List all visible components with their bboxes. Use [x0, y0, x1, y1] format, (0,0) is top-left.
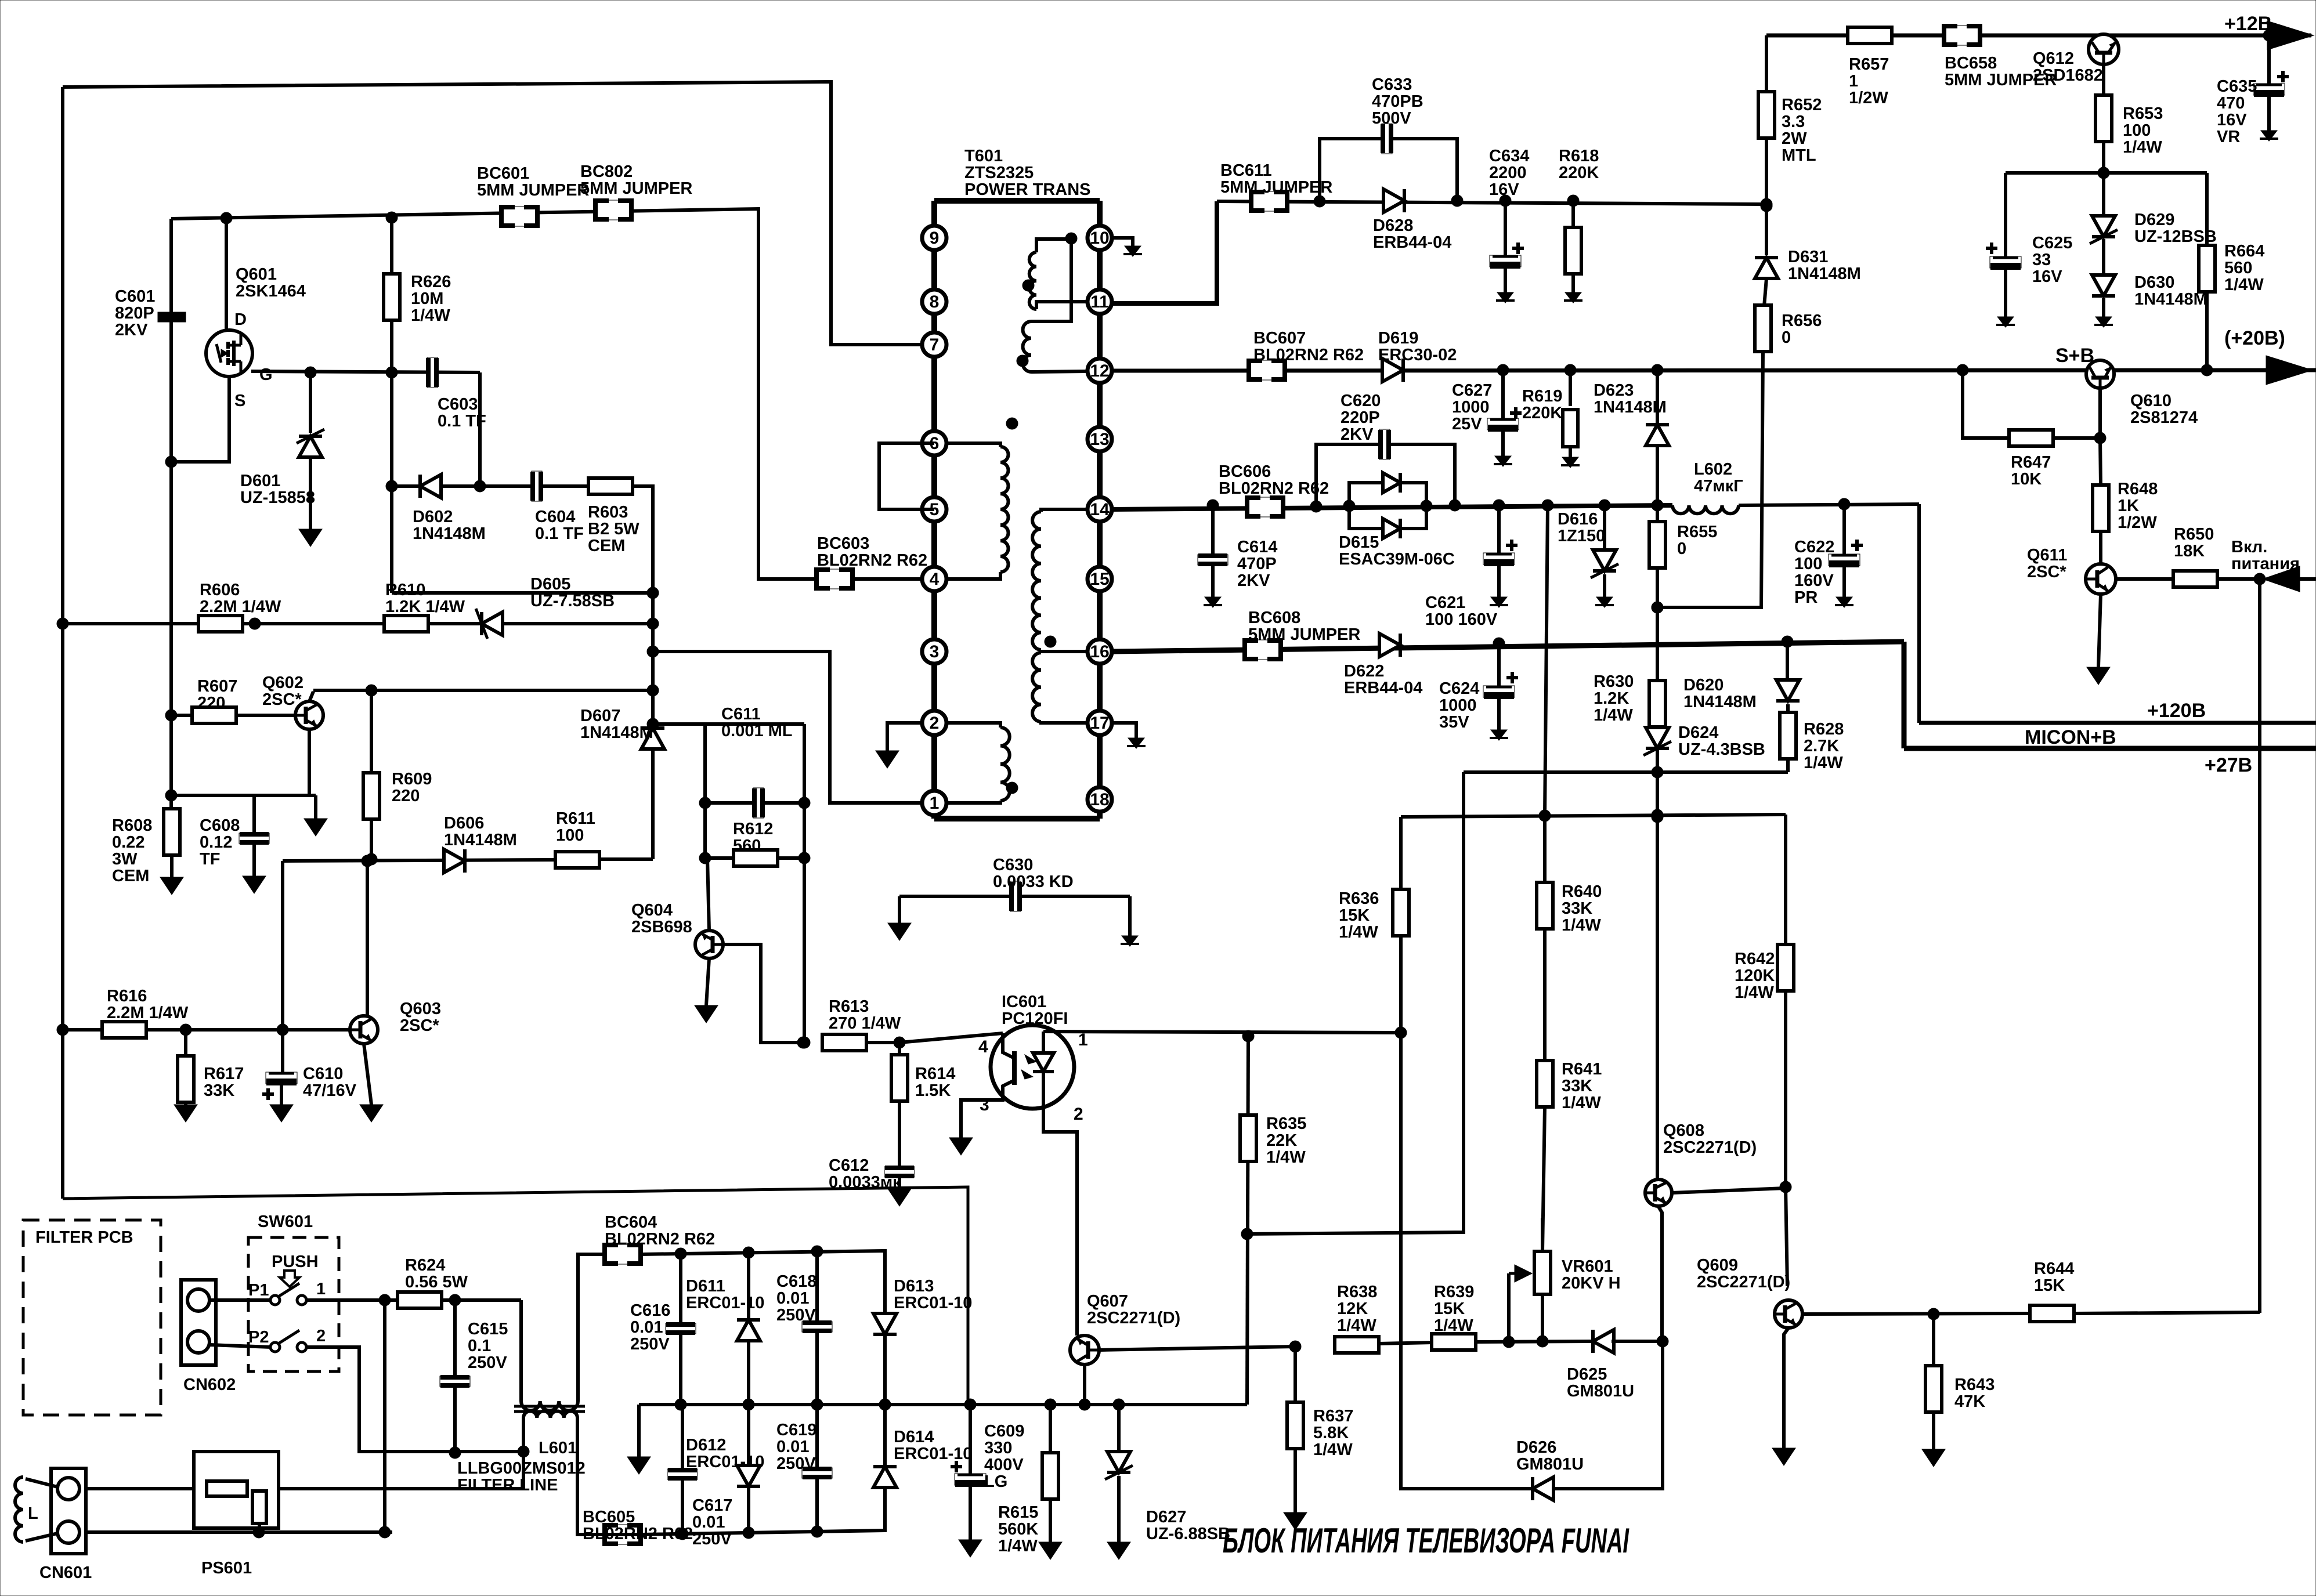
svg-text:R610: R610 — [385, 581, 425, 599]
svg-text:ERC01-10: ERC01-10 — [686, 1453, 764, 1471]
svg-text:0.0033 KD: 0.0033 KD — [993, 873, 1074, 891]
svg-text:0.12: 0.12 — [200, 833, 232, 852]
svg-text:250V: 250V — [776, 1454, 816, 1473]
svg-text:D620: D620 — [1683, 676, 1724, 694]
svg-text:+27B: +27B — [2205, 754, 2252, 776]
svg-text:D628: D628 — [1373, 216, 1413, 235]
svg-text:S+B: S+B — [2055, 345, 2094, 367]
svg-text:0.01: 0.01 — [630, 1318, 663, 1337]
svg-text:C614: C614 — [1237, 538, 1277, 556]
svg-text:Q608: Q608 — [1663, 1121, 1704, 1140]
svg-text:L: L — [28, 1504, 38, 1523]
svg-text:1N4148M: 1N4148M — [444, 831, 517, 849]
svg-text:R640: R640 — [1562, 882, 1602, 901]
svg-text:220: 220 — [197, 694, 225, 712]
svg-text:1.2K 1/4W: 1.2K 1/4W — [385, 598, 465, 616]
svg-text:R652: R652 — [1782, 96, 1822, 114]
svg-text:БЛОК ПИТАНИЯ ТЕЛЕВИЗОРА FUNAI: БЛОК ПИТАНИЯ ТЕЛЕВИЗОРА FUNAI — [1223, 1521, 1629, 1560]
svg-text:R639: R639 — [1434, 1283, 1474, 1301]
svg-text:D: D — [234, 310, 247, 329]
svg-text:18: 18 — [1090, 790, 1109, 809]
svg-text:25V: 25V — [1452, 415, 1482, 433]
svg-text:47K: 47K — [1954, 1392, 1985, 1411]
svg-text:C635: C635 — [2217, 77, 2257, 96]
svg-text:16: 16 — [1090, 642, 1109, 661]
svg-text:D605: D605 — [530, 575, 570, 593]
svg-text:16V: 16V — [2217, 111, 2247, 129]
svg-text:C625: C625 — [2032, 234, 2072, 252]
svg-text:0.0033мк: 0.0033мк — [829, 1173, 901, 1192]
svg-text:D624: D624 — [1678, 723, 1718, 742]
svg-text:D631: D631 — [1788, 248, 1828, 266]
svg-text:BC601: BC601 — [477, 164, 529, 183]
svg-text:16V: 16V — [2032, 267, 2062, 286]
svg-text:17: 17 — [1090, 714, 1109, 733]
svg-text:1: 1 — [1849, 72, 1858, 91]
svg-text:C610: C610 — [303, 1065, 343, 1083]
svg-text:ERC01-10: ERC01-10 — [894, 1445, 972, 1463]
svg-text:MICON+B: MICON+B — [2025, 726, 2116, 748]
svg-text:PS601: PS601 — [201, 1559, 252, 1577]
svg-text:C622: C622 — [1794, 538, 1834, 556]
svg-text:2SC2271(D): 2SC2271(D) — [1087, 1309, 1180, 1327]
svg-text:C608: C608 — [200, 816, 240, 835]
svg-text:2: 2 — [316, 1327, 326, 1345]
svg-text:D629: D629 — [2134, 211, 2174, 229]
svg-text:ERC01-10: ERC01-10 — [686, 1294, 764, 1312]
svg-text:D616: D616 — [1558, 510, 1598, 529]
svg-text:2SC2271(D): 2SC2271(D) — [1663, 1138, 1757, 1157]
svg-text:R630: R630 — [1594, 672, 1634, 691]
svg-text:Q612: Q612 — [2033, 49, 2074, 68]
svg-text:2KV: 2KV — [1237, 571, 1270, 590]
svg-text:D611: D611 — [686, 1277, 725, 1295]
svg-text:R619: R619 — [1522, 387, 1562, 406]
svg-text:D606: D606 — [444, 814, 484, 833]
svg-text:1000: 1000 — [1452, 398, 1490, 417]
svg-text:1/4W: 1/4W — [411, 306, 450, 325]
svg-text:8: 8 — [930, 292, 940, 312]
svg-text:1/4W: 1/4W — [1594, 706, 1633, 725]
svg-text:1.5K: 1.5K — [915, 1081, 951, 1100]
svg-text:1000: 1000 — [1439, 696, 1477, 715]
svg-text:D619: D619 — [1378, 329, 1418, 348]
svg-text:C612: C612 — [829, 1156, 869, 1175]
svg-text:TF: TF — [200, 850, 220, 868]
svg-text:2KV: 2KV — [1341, 425, 1374, 444]
svg-text:33: 33 — [2032, 251, 2051, 269]
svg-text:470: 470 — [2217, 94, 2245, 113]
svg-text:R648: R648 — [2118, 480, 2158, 498]
svg-text:C620: C620 — [1341, 392, 1381, 410]
svg-text:D625: D625 — [1567, 1365, 1607, 1384]
svg-text:330: 330 — [984, 1439, 1012, 1457]
svg-text:1N4148M: 1N4148M — [2134, 290, 2207, 309]
svg-text:13: 13 — [1090, 430, 1109, 449]
svg-text:0.1: 0.1 — [468, 1337, 491, 1355]
svg-text:1/4W: 1/4W — [1434, 1316, 1473, 1335]
svg-text:2.2M 1/4W: 2.2M 1/4W — [200, 598, 281, 616]
svg-text:D615: D615 — [1339, 533, 1379, 552]
svg-text:2: 2 — [1074, 1105, 1083, 1124]
svg-text:0: 0 — [1677, 540, 1686, 558]
svg-text:Q610: Q610 — [2130, 392, 2172, 410]
svg-text:1Z150: 1Z150 — [1558, 527, 1605, 545]
svg-text:D622: D622 — [1344, 662, 1384, 681]
svg-text:100: 100 — [2123, 121, 2151, 140]
svg-text:1N4148M: 1N4148M — [1788, 265, 1861, 283]
svg-text:0.001 ML: 0.001 ML — [721, 722, 793, 740]
svg-text:1N4148M: 1N4148M — [1683, 693, 1757, 711]
svg-text:R637: R637 — [1313, 1407, 1353, 1425]
svg-text:5MM JUMPER: 5MM JUMPER — [580, 179, 692, 198]
svg-text:R618: R618 — [1559, 147, 1599, 165]
svg-text:400V: 400V — [984, 1456, 1024, 1474]
svg-text:ERB44-04: ERB44-04 — [1344, 679, 1422, 697]
svg-text:FILTER LINE: FILTER LINE — [457, 1476, 558, 1494]
svg-text:ERC30-02: ERC30-02 — [1378, 346, 1457, 364]
svg-text:Q604: Q604 — [631, 901, 673, 920]
svg-text:R609: R609 — [392, 770, 432, 788]
svg-text:2SC*: 2SC* — [262, 690, 302, 709]
svg-text:220P: 220P — [1341, 408, 1380, 427]
svg-text:33K: 33K — [1562, 899, 1592, 918]
svg-text:15K: 15K — [2034, 1276, 2065, 1295]
svg-text:UZ-4.3BSB: UZ-4.3BSB — [1678, 740, 1765, 759]
svg-text:7: 7 — [930, 335, 940, 354]
svg-text:4: 4 — [930, 570, 940, 589]
svg-text:2SC*: 2SC* — [400, 1016, 439, 1035]
svg-text:IC601: IC601 — [1002, 993, 1046, 1011]
svg-text:R636: R636 — [1339, 889, 1379, 908]
svg-text:100: 100 — [556, 826, 584, 845]
svg-text:1/4W: 1/4W — [2123, 138, 2162, 157]
svg-text:C615: C615 — [468, 1320, 508, 1338]
svg-text:Q607: Q607 — [1087, 1292, 1128, 1311]
svg-text:G: G — [259, 365, 273, 384]
svg-text:2.2M 1/4W: 2.2M 1/4W — [107, 1004, 189, 1022]
svg-text:C618: C618 — [776, 1272, 816, 1291]
svg-text:R612: R612 — [733, 820, 773, 838]
svg-text:47/16V: 47/16V — [303, 1081, 357, 1100]
svg-text:CEM: CEM — [112, 867, 149, 885]
svg-text:+12B: +12B — [2224, 13, 2272, 35]
svg-text:ERC01-10: ERC01-10 — [894, 1294, 972, 1312]
svg-text:0.01: 0.01 — [776, 1289, 809, 1308]
svg-text:15K: 15K — [1434, 1300, 1465, 1318]
svg-text:15: 15 — [1090, 570, 1109, 589]
svg-text:C604: C604 — [535, 508, 575, 526]
svg-text:R657: R657 — [1849, 55, 1889, 74]
svg-text:D627: D627 — [1146, 1508, 1186, 1526]
svg-text:500V: 500V — [1372, 109, 1411, 128]
svg-text:BL02RN2 R62: BL02RN2 R62 — [1253, 346, 1364, 364]
svg-text:PUSH: PUSH — [272, 1253, 319, 1271]
svg-text:560: 560 — [733, 837, 761, 855]
svg-text:1: 1 — [930, 794, 940, 813]
svg-text:5MM JUMPER: 5MM JUMPER — [1220, 178, 1332, 197]
svg-text:R624: R624 — [405, 1256, 445, 1275]
svg-text:5.8K: 5.8K — [1313, 1424, 1349, 1442]
svg-text:15K: 15K — [1339, 906, 1370, 925]
svg-text:2SD1682: 2SD1682 — [2033, 66, 2103, 85]
svg-text:BL02RN2 R62: BL02RN2 R62 — [817, 551, 927, 570]
svg-text:Q603: Q603 — [400, 1000, 441, 1018]
svg-text:35V: 35V — [1439, 713, 1469, 732]
svg-text:R641: R641 — [1562, 1060, 1602, 1079]
svg-text:POWER TRANS: POWER TRANS — [964, 180, 1091, 199]
svg-text:2200: 2200 — [1489, 164, 1527, 182]
svg-text:R606: R606 — [200, 581, 240, 599]
svg-text:18K: 18K — [2174, 542, 2205, 560]
svg-text:2SC*: 2SC* — [2027, 563, 2066, 581]
svg-text:1/4W: 1/4W — [1266, 1148, 1306, 1167]
svg-text:VR601: VR601 — [1562, 1257, 1613, 1276]
svg-text:D607: D607 — [580, 707, 620, 725]
svg-text:22K: 22K — [1266, 1131, 1297, 1150]
svg-text:0.01: 0.01 — [692, 1513, 725, 1532]
svg-text:Q602: Q602 — [262, 674, 303, 692]
svg-text:R650: R650 — [2174, 525, 2214, 544]
svg-text:S: S — [234, 392, 245, 410]
svg-text:D613: D613 — [894, 1277, 934, 1295]
svg-text:10M: 10M — [411, 289, 443, 308]
svg-text:Q611: Q611 — [2027, 546, 2067, 564]
svg-text:PC120FI: PC120FI — [1002, 1009, 1068, 1028]
svg-text:ZTS2325: ZTS2325 — [964, 164, 1034, 182]
svg-text:MTL: MTL — [1782, 146, 1816, 165]
svg-text:250V: 250V — [630, 1335, 670, 1353]
svg-text:220K: 220K — [1522, 404, 1562, 422]
svg-text:FILTER PCB: FILTER PCB — [35, 1228, 133, 1247]
svg-text:R644: R644 — [2034, 1260, 2074, 1278]
svg-text:P1: P1 — [248, 1281, 269, 1300]
svg-text:470P: 470P — [1237, 555, 1277, 573]
svg-text:D602: D602 — [413, 508, 453, 526]
svg-text:(+20B): (+20B) — [2224, 327, 2285, 349]
svg-text:R655: R655 — [1677, 523, 1717, 541]
svg-text:33K: 33K — [204, 1081, 234, 1100]
svg-text:1N4148M: 1N4148M — [580, 723, 653, 742]
svg-text:L602: L602 — [1694, 460, 1732, 479]
svg-text:VR: VR — [2217, 128, 2240, 146]
svg-text:R616: R616 — [107, 987, 147, 1005]
svg-text:270 1/4W: 270 1/4W — [829, 1014, 901, 1033]
svg-text:GM801U: GM801U — [1516, 1455, 1584, 1474]
svg-text:C634: C634 — [1489, 147, 1529, 165]
svg-text:10K: 10K — [2011, 470, 2042, 488]
svg-text:BC604: BC604 — [605, 1213, 657, 1232]
svg-text:R611: R611 — [556, 809, 595, 828]
svg-text:D614: D614 — [894, 1428, 934, 1446]
svg-text:R653: R653 — [2123, 104, 2163, 123]
svg-text:D612: D612 — [686, 1436, 726, 1454]
svg-text:R635: R635 — [1266, 1114, 1306, 1133]
svg-text:D623: D623 — [1594, 381, 1634, 400]
svg-text:2KV: 2KV — [115, 321, 148, 339]
svg-text:P2: P2 — [248, 1328, 269, 1347]
svg-text:12: 12 — [1090, 361, 1109, 381]
svg-text:BL02RN2 R62: BL02RN2 R62 — [1219, 479, 1329, 498]
svg-text:T601: T601 — [964, 147, 1003, 165]
svg-text:R626: R626 — [411, 273, 451, 291]
svg-text:820P: 820P — [115, 304, 154, 323]
svg-text:0.1 TF: 0.1 TF — [535, 524, 584, 543]
svg-text:C619: C619 — [776, 1421, 816, 1439]
svg-text:1.2K: 1.2K — [1594, 689, 1629, 708]
svg-text:250V: 250V — [692, 1530, 732, 1548]
svg-text:220K: 220K — [1559, 164, 1599, 182]
svg-text:250V: 250V — [776, 1306, 816, 1324]
svg-text:33K: 33K — [1562, 1077, 1592, 1095]
svg-text:R664: R664 — [2224, 242, 2264, 260]
svg-text:L601: L601 — [539, 1439, 577, 1457]
svg-text:R614: R614 — [915, 1065, 955, 1083]
svg-text:C621: C621 — [1425, 593, 1465, 612]
svg-text:Вкл.: Вкл. — [2231, 538, 2267, 556]
svg-text:UZ-7.58SB: UZ-7.58SB — [530, 592, 615, 610]
svg-text:250V: 250V — [468, 1353, 507, 1372]
svg-text:3: 3 — [930, 642, 940, 661]
svg-text:UZ-6.88SB: UZ-6.88SB — [1146, 1525, 1230, 1543]
svg-text:BC607: BC607 — [1253, 329, 1306, 348]
svg-text:UZ-15858: UZ-15858 — [240, 488, 315, 507]
svg-text:R608: R608 — [112, 816, 152, 835]
svg-text:Q601: Q601 — [236, 265, 277, 284]
svg-text:CN601: CN601 — [39, 1564, 92, 1582]
svg-text:0.56 5W: 0.56 5W — [405, 1273, 468, 1291]
svg-text:1/4W: 1/4W — [1562, 1094, 1601, 1112]
svg-text:5MM JUMPER: 5MM JUMPER — [477, 181, 589, 200]
svg-text:0.22: 0.22 — [112, 833, 144, 852]
svg-text:BC608: BC608 — [1248, 609, 1300, 627]
svg-text:1/4W: 1/4W — [1735, 983, 1774, 1002]
svg-text:UZ-12BSB: UZ-12BSB — [2134, 227, 2217, 246]
svg-text:D601: D601 — [240, 472, 280, 490]
svg-text:1/4W: 1/4W — [1313, 1441, 1353, 1459]
svg-text:Q609: Q609 — [1697, 1256, 1738, 1275]
svg-text:CN602: CN602 — [183, 1376, 236, 1394]
svg-text:3: 3 — [980, 1095, 989, 1114]
svg-text:1/4W: 1/4W — [1804, 754, 1843, 772]
svg-text:100: 100 — [1794, 555, 1822, 573]
svg-text:D626: D626 — [1516, 1438, 1556, 1457]
svg-text:11: 11 — [1090, 292, 1109, 312]
svg-text:1/4W: 1/4W — [1337, 1316, 1376, 1335]
svg-text:1/4W: 1/4W — [998, 1537, 1038, 1555]
svg-text:470PB: 470PB — [1372, 92, 1423, 111]
svg-text:BC605: BC605 — [583, 1508, 635, 1526]
svg-text:R642: R642 — [1735, 950, 1775, 968]
svg-text:220: 220 — [392, 787, 420, 805]
svg-text:560: 560 — [2224, 259, 2252, 277]
svg-text:16V: 16V — [1489, 180, 1519, 199]
svg-text:D630: D630 — [2134, 273, 2174, 292]
svg-text:1N4148M: 1N4148M — [1594, 398, 1667, 417]
svg-text:R643: R643 — [1954, 1376, 1995, 1394]
svg-text:BL02RN2 R62: BL02RN2 R62 — [605, 1230, 715, 1248]
svg-text:R638: R638 — [1337, 1283, 1377, 1301]
svg-text:C601: C601 — [115, 287, 155, 306]
svg-text:SW601: SW601 — [258, 1213, 313, 1231]
svg-text:питания: питания — [2231, 555, 2300, 573]
svg-text:BC603: BC603 — [817, 534, 869, 553]
svg-text:C627: C627 — [1452, 381, 1492, 400]
svg-text:1N4148M: 1N4148M — [413, 524, 486, 543]
svg-text:C630: C630 — [993, 856, 1033, 874]
svg-text:2: 2 — [930, 714, 940, 733]
svg-text:C633: C633 — [1372, 75, 1412, 94]
svg-text:1/4W: 1/4W — [1339, 923, 1378, 942]
svg-text:R647: R647 — [2011, 453, 2051, 472]
svg-text:ESAC39M-06C: ESAC39M-06C — [1339, 550, 1455, 569]
svg-text:100 160V: 100 160V — [1425, 610, 1498, 629]
svg-text:10: 10 — [1090, 229, 1109, 248]
svg-text:R656: R656 — [1782, 312, 1822, 330]
svg-text:CEM: CEM — [588, 537, 625, 555]
svg-text:BL02RN2 R62: BL02RN2 R62 — [583, 1525, 693, 1543]
svg-text:PR: PR — [1794, 588, 1818, 607]
svg-text:C624: C624 — [1439, 679, 1479, 698]
svg-text:560K: 560K — [998, 1520, 1038, 1539]
svg-text:2SC2271(D): 2SC2271(D) — [1697, 1273, 1790, 1291]
svg-text:R617: R617 — [204, 1065, 244, 1083]
svg-text:R603: R603 — [588, 503, 628, 522]
svg-text:C609: C609 — [984, 1422, 1024, 1441]
svg-text:47мкГ: 47мкГ — [1694, 477, 1743, 495]
svg-text:2SB698: 2SB698 — [631, 918, 692, 936]
svg-text:1/4W: 1/4W — [1562, 916, 1601, 935]
svg-text:1/2W: 1/2W — [2118, 513, 2157, 532]
svg-text:120K: 120K — [1735, 967, 1775, 985]
svg-text:3.3: 3.3 — [1782, 113, 1805, 131]
svg-text:5MM JUMPER: 5MM JUMPER — [1248, 625, 1360, 644]
svg-text:2SK1464: 2SK1464 — [236, 282, 306, 301]
svg-text:C616: C616 — [630, 1301, 670, 1320]
svg-text:3W: 3W — [112, 850, 138, 868]
svg-text:14: 14 — [1090, 500, 1110, 519]
svg-text:R607: R607 — [197, 677, 237, 696]
svg-text:B2 5W: B2 5W — [588, 520, 639, 538]
svg-text:1/2W: 1/2W — [1849, 89, 1888, 107]
svg-text:160V: 160V — [1794, 571, 1834, 590]
svg-text:BC802: BC802 — [580, 162, 633, 181]
svg-text:0.1 TF: 0.1 TF — [438, 412, 486, 430]
svg-text:C611: C611 — [721, 705, 761, 723]
svg-text:R613: R613 — [829, 997, 869, 1016]
svg-text:LG: LG — [984, 1472, 1007, 1491]
svg-text:0: 0 — [1782, 328, 1791, 347]
svg-text:GM801U: GM801U — [1567, 1382, 1634, 1400]
svg-text:2.7K: 2.7K — [1804, 737, 1839, 755]
svg-text:R628: R628 — [1804, 720, 1844, 739]
svg-text:C617: C617 — [692, 1496, 732, 1515]
svg-text:20KV H: 20KV H — [1562, 1274, 1621, 1293]
svg-text:4: 4 — [978, 1037, 988, 1056]
svg-text:BC658: BC658 — [1945, 54, 1997, 73]
svg-text:12K: 12K — [1337, 1300, 1368, 1318]
svg-text:BC606: BC606 — [1219, 462, 1271, 481]
svg-text:9: 9 — [930, 229, 940, 248]
svg-text:1/4W: 1/4W — [2224, 276, 2264, 294]
svg-text:2S81274: 2S81274 — [2130, 408, 2198, 427]
svg-text:LLBG00ZMS012: LLBG00ZMS012 — [457, 1459, 586, 1478]
svg-text:0.01: 0.01 — [776, 1438, 809, 1456]
svg-text:R615: R615 — [998, 1503, 1038, 1522]
svg-text:+120B: +120B — [2147, 700, 2206, 722]
svg-text:1K: 1K — [2118, 497, 2139, 515]
svg-text:2W: 2W — [1782, 129, 1807, 148]
